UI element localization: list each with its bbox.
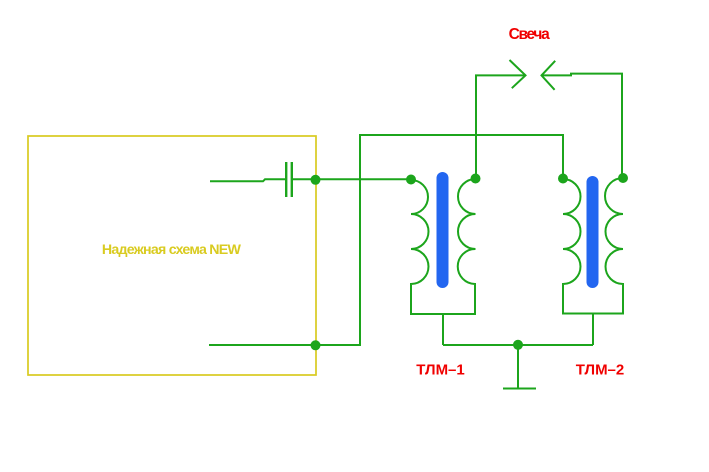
svg-text:Свеча: Свеча: [509, 26, 551, 43]
svg-text:ТЛМ–2: ТЛМ–2: [576, 362, 625, 379]
svg-text:Надежная схема NEW: Надежная схема NEW: [102, 242, 242, 258]
svg-text:ТЛМ–1: ТЛМ–1: [416, 362, 465, 379]
